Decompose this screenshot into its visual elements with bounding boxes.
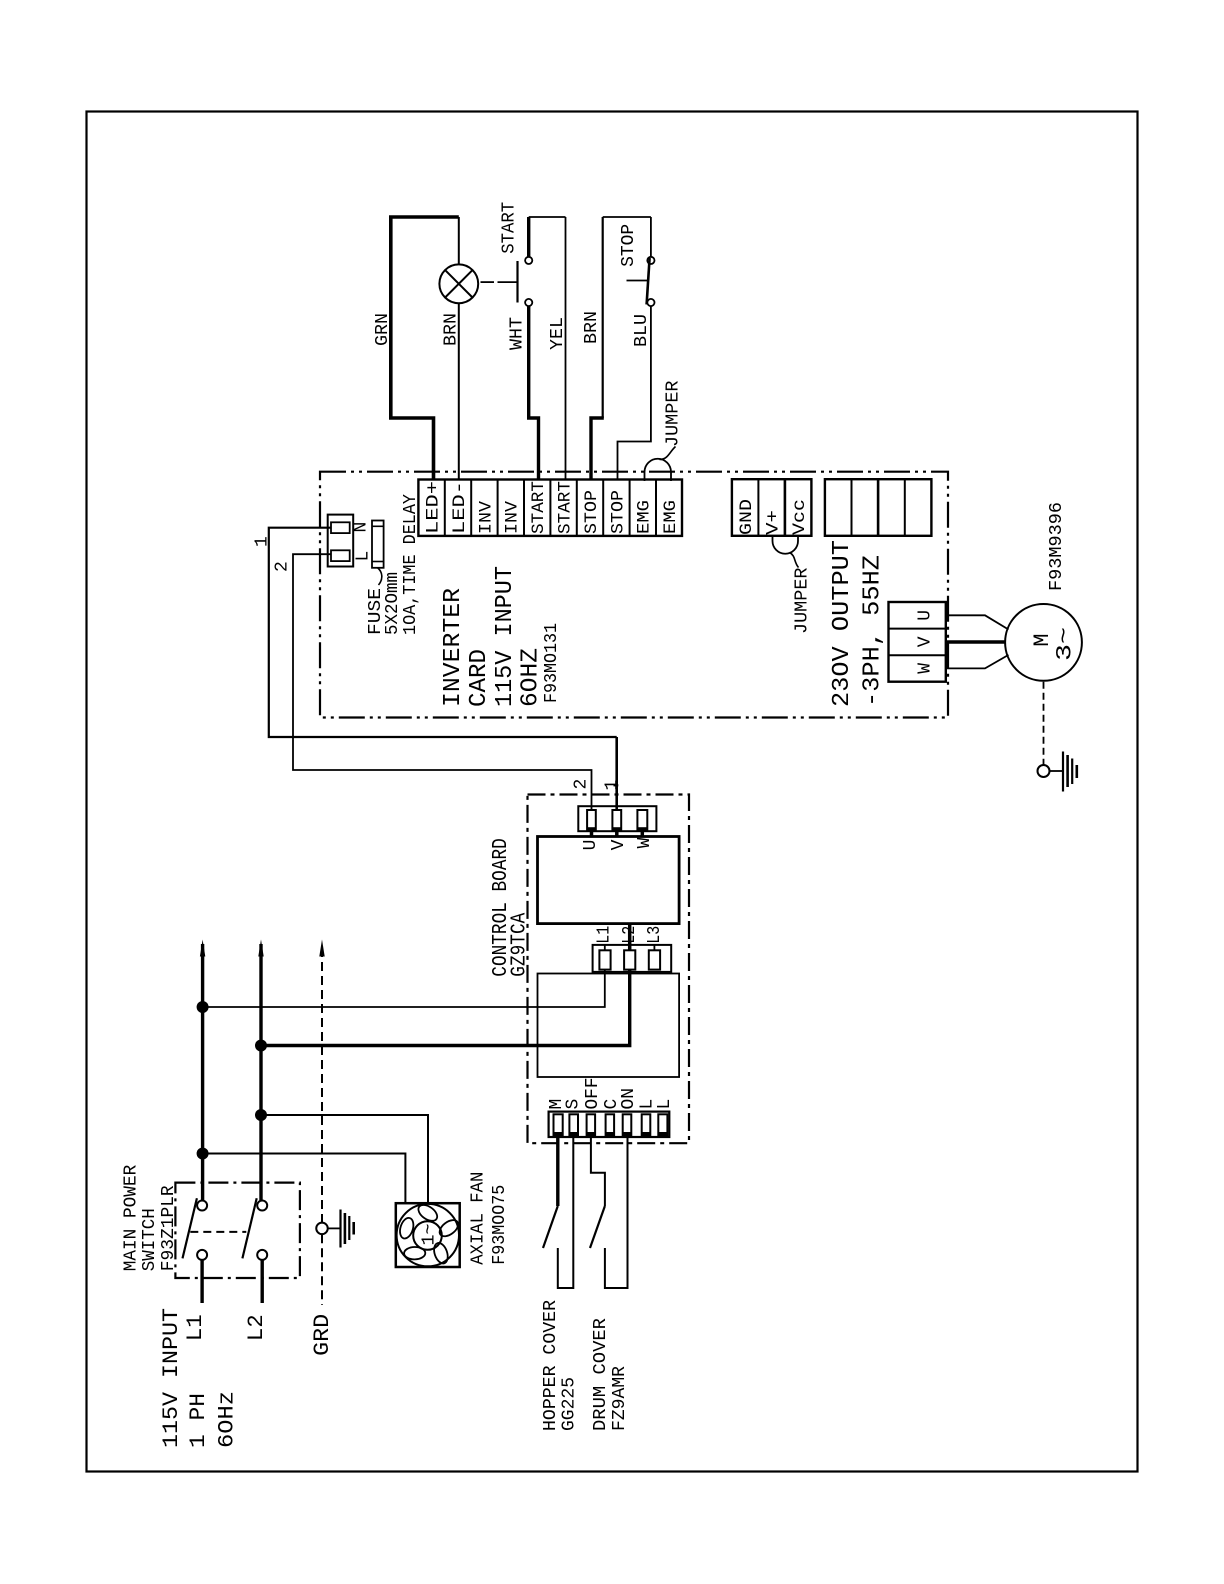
terminal label V+ xyxy=(764,510,784,535)
pin label C xyxy=(602,1099,622,1110)
jumper leader line bottom xyxy=(790,553,799,568)
label CARD xyxy=(466,649,493,707)
terminal label U xyxy=(916,610,936,621)
svg-text:MAIN POWER: MAIN POWER xyxy=(121,1165,141,1272)
label F93MOO75 xyxy=(490,1185,510,1265)
label BRN 2 xyxy=(582,311,602,344)
svg-text:BLU: BLU xyxy=(632,314,652,347)
board pin label V xyxy=(609,839,629,850)
svg-text:L3: L3 xyxy=(645,926,665,944)
label F93MO131 xyxy=(542,623,562,703)
ground symbol GRD xyxy=(328,1210,354,1248)
svg-text:F93Z1PLR: F93Z1PLR xyxy=(159,1185,179,1271)
svg-text:L: L xyxy=(354,551,374,562)
svg-text:1~: 1~ xyxy=(420,1224,440,1246)
label BLU xyxy=(632,314,652,347)
svg-text:OFF: OFF xyxy=(583,1078,603,1110)
wire 1 drop to pin xyxy=(615,737,618,810)
main power switch boundary box xyxy=(175,1183,300,1278)
label -3PH, 55HZ xyxy=(860,555,887,707)
svg-text:N: N xyxy=(352,522,372,533)
label GRD xyxy=(310,1314,335,1356)
jumper leader line xyxy=(660,447,676,460)
actuator dash-dot link lamp to START xyxy=(481,281,518,283)
pushbutton START xyxy=(518,257,533,306)
border frame xyxy=(87,112,1138,1472)
label 2 near fuse block xyxy=(272,561,292,572)
svg-text:JUMPER: JUMPER xyxy=(793,567,813,634)
label STOP xyxy=(619,224,639,267)
terminal label LED- xyxy=(450,481,470,534)
junction dot fan wire 1 xyxy=(197,1148,209,1160)
motor ground terminal circle xyxy=(1038,765,1050,777)
wire BRN2 jog to STOP terminal xyxy=(591,418,604,480)
svg-text:DRUM COVER: DRUM COVER xyxy=(591,1318,611,1431)
terminal label STOP 1 xyxy=(582,490,602,534)
terminal label Vcc xyxy=(790,499,810,535)
label 60Hz xyxy=(214,1391,239,1448)
label CONTROL BOARD xyxy=(490,838,513,977)
control board lower block xyxy=(538,974,680,1078)
pin label S xyxy=(564,1099,584,1110)
axial fan xyxy=(396,1202,461,1267)
label 1 near control board xyxy=(603,780,623,791)
svg-text:GND: GND xyxy=(737,499,757,535)
control board upper block xyxy=(538,837,680,924)
svg-text:Vcc: Vcc xyxy=(790,499,810,535)
label 2 near control board xyxy=(572,779,592,790)
label 1OA,TIME DELAY xyxy=(401,494,421,635)
svg-text:W: W xyxy=(635,837,655,848)
svg-text:-3PH, 55HZ: -3PH, 55HZ xyxy=(860,555,887,707)
terminal strip inverter inputs xyxy=(418,480,682,536)
pin label OFF xyxy=(583,1078,603,1110)
control board bottom connector xyxy=(549,1112,670,1137)
main power switch contacts xyxy=(183,1198,268,1260)
svg-text:6OHZ: 6OHZ xyxy=(518,648,545,707)
label 60HZ xyxy=(518,648,545,707)
label WHT xyxy=(508,317,528,350)
motor ground wire dashed xyxy=(1043,682,1045,765)
label 1 near fuse block xyxy=(253,536,273,547)
svg-text:L2: L2 xyxy=(244,1314,269,1341)
wire BRN2 vertical xyxy=(602,217,604,418)
svg-text:W: W xyxy=(916,663,936,674)
svg-text:LED+: LED+ xyxy=(424,481,444,534)
terminal label GND xyxy=(737,499,757,535)
wire L1 to input line 1 xyxy=(203,970,605,1007)
pin label ON xyxy=(619,1088,639,1110)
label 23OV OUTPUT xyxy=(829,540,856,707)
label L3 pin xyxy=(645,926,665,944)
board pin label U xyxy=(581,840,601,851)
label JUMPER bottom xyxy=(793,567,813,634)
control board middle connector xyxy=(593,945,672,972)
pin label L 1 xyxy=(638,1099,658,1110)
wire GRN-BRN top link xyxy=(389,215,459,219)
svg-text:F93MO131: F93MO131 xyxy=(542,623,562,703)
svg-text:V: V xyxy=(916,636,936,647)
label BRN xyxy=(442,313,462,346)
svg-text:M: M xyxy=(1030,633,1055,646)
label JUMPER top xyxy=(664,380,684,447)
svg-text:1: 1 xyxy=(603,780,623,791)
svg-text:L1: L1 xyxy=(183,1314,208,1341)
wire V to motor xyxy=(946,640,1005,643)
wire WHT START to terminal xyxy=(529,306,539,479)
terminal label STOP 2 xyxy=(608,490,628,534)
terminal strip U V W output xyxy=(889,602,946,682)
drum cover switch xyxy=(590,1137,628,1288)
pin label L 2 xyxy=(655,1099,675,1110)
label MAIN POWER xyxy=(121,1165,141,1272)
wire BLU STOP to terminal xyxy=(618,306,651,479)
svg-text:1: 1 xyxy=(253,536,273,547)
input line GRD dashed with arrow xyxy=(319,940,324,1306)
svg-text:LED-: LED- xyxy=(450,481,470,534)
terminal block N L xyxy=(328,515,354,567)
label L1 pin xyxy=(595,926,615,944)
stub L3 xyxy=(653,945,655,950)
pushbutton STOP xyxy=(627,257,655,306)
terminal strip spare xyxy=(825,479,932,536)
label YEL xyxy=(548,317,568,350)
jumper arc V+ to Vcc xyxy=(773,536,799,554)
terminal label EMG 2 xyxy=(661,500,681,534)
svg-text:V+: V+ xyxy=(764,510,784,535)
control board boundary box xyxy=(528,795,690,1144)
pin label M xyxy=(547,1099,567,1110)
wire BRN2-STOP top link xyxy=(603,216,651,218)
svg-text:BRN: BRN xyxy=(442,313,462,346)
svg-text:INVERTER: INVERTER xyxy=(440,588,467,707)
label F93Z1PLR xyxy=(159,1185,179,1271)
wire 1 from N terminal to control board V pin xyxy=(269,528,617,737)
label GRN xyxy=(373,313,393,346)
label FUSE xyxy=(366,588,386,635)
svg-text:EMG: EMG xyxy=(635,500,655,534)
svg-text:2: 2 xyxy=(272,561,292,572)
svg-text:6OHz: 6OHz xyxy=(214,1391,239,1448)
label N xyxy=(352,522,372,533)
stub L1 xyxy=(604,945,606,950)
svg-text:START: START xyxy=(556,481,576,534)
wire W to motor xyxy=(946,655,1009,669)
terminal label INV 2 xyxy=(503,500,523,534)
svg-text:115V INPUT: 115V INPUT xyxy=(159,1308,184,1448)
svg-text:S: S xyxy=(564,1099,584,1110)
svg-text:EMG: EMG xyxy=(661,500,681,534)
label L1 input xyxy=(183,1314,208,1341)
label AXIAL FAN xyxy=(469,1172,489,1265)
svg-text:GG225: GG225 xyxy=(560,1377,580,1431)
svg-text:U: U xyxy=(581,840,601,851)
label GZ9TCA xyxy=(508,912,531,976)
label SWITCH xyxy=(140,1208,160,1271)
wire 1 tick mark xyxy=(614,784,619,786)
svg-text:CARD: CARD xyxy=(466,649,493,707)
svg-text:START: START xyxy=(529,481,549,534)
label L xyxy=(354,551,374,562)
svg-text:1 PH: 1 PH xyxy=(186,1393,211,1448)
hopper cover switch xyxy=(543,1137,573,1288)
wire L2 to input line 2 xyxy=(261,970,630,1046)
svg-text:HOPPER COVER: HOPPER COVER xyxy=(541,1300,561,1431)
svg-text:3~: 3~ xyxy=(1052,627,1077,661)
wire U to motor xyxy=(946,615,1009,629)
label 1 PH xyxy=(186,1393,211,1448)
svg-text:FZ9AMR: FZ9AMR xyxy=(610,1366,630,1431)
label GG225 xyxy=(560,1377,580,1431)
ground terminal circle GRD xyxy=(316,1223,328,1235)
terminal label W xyxy=(916,663,936,674)
label 115V INPUT xyxy=(492,566,519,707)
junction dot L2 xyxy=(255,1040,267,1052)
label F93M9396 xyxy=(1047,502,1067,591)
label DRUM COVER xyxy=(591,1318,611,1431)
svg-text:L1: L1 xyxy=(595,926,615,944)
wire STOP top drop xyxy=(650,217,652,257)
svg-text:AXIAL FAN: AXIAL FAN xyxy=(469,1172,489,1265)
stub L2 xyxy=(628,924,632,950)
svg-text:YEL: YEL xyxy=(548,317,568,350)
label START xyxy=(500,202,520,254)
wire START top xyxy=(527,217,530,257)
svg-text:2: 2 xyxy=(572,779,592,790)
svg-text:ON: ON xyxy=(619,1088,639,1110)
label FZ9AMR xyxy=(610,1366,630,1431)
wire L2 stub xyxy=(261,1260,264,1303)
svg-text:23OV OUTPUT: 23OV OUTPUT xyxy=(829,540,856,707)
label 5X2Omm xyxy=(383,572,403,635)
terminal label INV 1 xyxy=(476,500,496,534)
motor ground symbol xyxy=(1050,752,1077,792)
motor M 3ph xyxy=(1005,604,1082,681)
svg-text:GZ9TCA: GZ9TCA xyxy=(508,912,531,976)
terminal label V xyxy=(916,636,936,647)
svg-text:L: L xyxy=(655,1099,675,1110)
svg-text:START: START xyxy=(500,202,520,254)
svg-text:STOP: STOP xyxy=(582,490,602,534)
wire YEL xyxy=(565,217,567,480)
inverter card boundary box xyxy=(320,472,948,718)
board pin label W xyxy=(635,837,655,848)
junction dot fan wire 2 xyxy=(255,1109,267,1121)
wire 2 from L terminal to control board U pin xyxy=(293,554,592,810)
svg-text:WHT: WHT xyxy=(508,317,528,350)
input line L2 with arrow xyxy=(258,940,263,1201)
svg-text:GRN: GRN xyxy=(373,313,393,346)
label L2 pin xyxy=(620,926,640,944)
lamp PL1 xyxy=(439,264,478,303)
svg-text:BRN: BRN xyxy=(582,311,602,344)
jumper arc EMG-EMG xyxy=(645,459,672,481)
svg-text:JUMPER: JUMPER xyxy=(664,380,684,447)
wire GRN lamp supply xyxy=(391,217,434,480)
label 115V INPUT bottom xyxy=(159,1308,184,1448)
label L2 input xyxy=(244,1314,269,1341)
fuse F1 5x20mm xyxy=(372,521,384,586)
wire fan 1 xyxy=(203,1154,406,1204)
wire L1 stub xyxy=(200,1260,203,1303)
svg-text:SWITCH: SWITCH xyxy=(140,1208,160,1271)
wire BRN lamp to LED- xyxy=(458,217,460,480)
label HOPPER COVER xyxy=(541,1300,561,1431)
input line L1 with arrow xyxy=(200,940,205,1201)
wire START-YEL link xyxy=(529,216,566,218)
svg-text:U: U xyxy=(916,610,936,621)
svg-text:V: V xyxy=(609,839,629,850)
svg-text:1OA,TIME DELAY: 1OA,TIME DELAY xyxy=(401,494,421,635)
svg-text:STOP: STOP xyxy=(608,490,628,534)
terminal label LED+ xyxy=(424,481,444,534)
svg-text:INV: INV xyxy=(476,500,496,534)
svg-text:INV: INV xyxy=(503,500,523,534)
svg-text:F93MOO75: F93MOO75 xyxy=(490,1185,510,1265)
terminal label EMG 1 xyxy=(635,500,655,534)
wire fan 2 xyxy=(261,1115,428,1203)
svg-text:STOP: STOP xyxy=(619,224,639,267)
svg-text:115V INPUT: 115V INPUT xyxy=(492,566,519,707)
svg-text:F93M9396: F93M9396 xyxy=(1047,502,1067,591)
terminal label START 2 xyxy=(556,481,576,534)
svg-text:GRD: GRD xyxy=(310,1314,335,1356)
label INVERTER xyxy=(440,588,467,707)
junction dot L1 xyxy=(197,1001,209,1013)
terminal label START 1 xyxy=(529,481,549,534)
control board top connector xyxy=(578,806,656,837)
terminal strip GND V+ Vcc xyxy=(732,479,812,536)
